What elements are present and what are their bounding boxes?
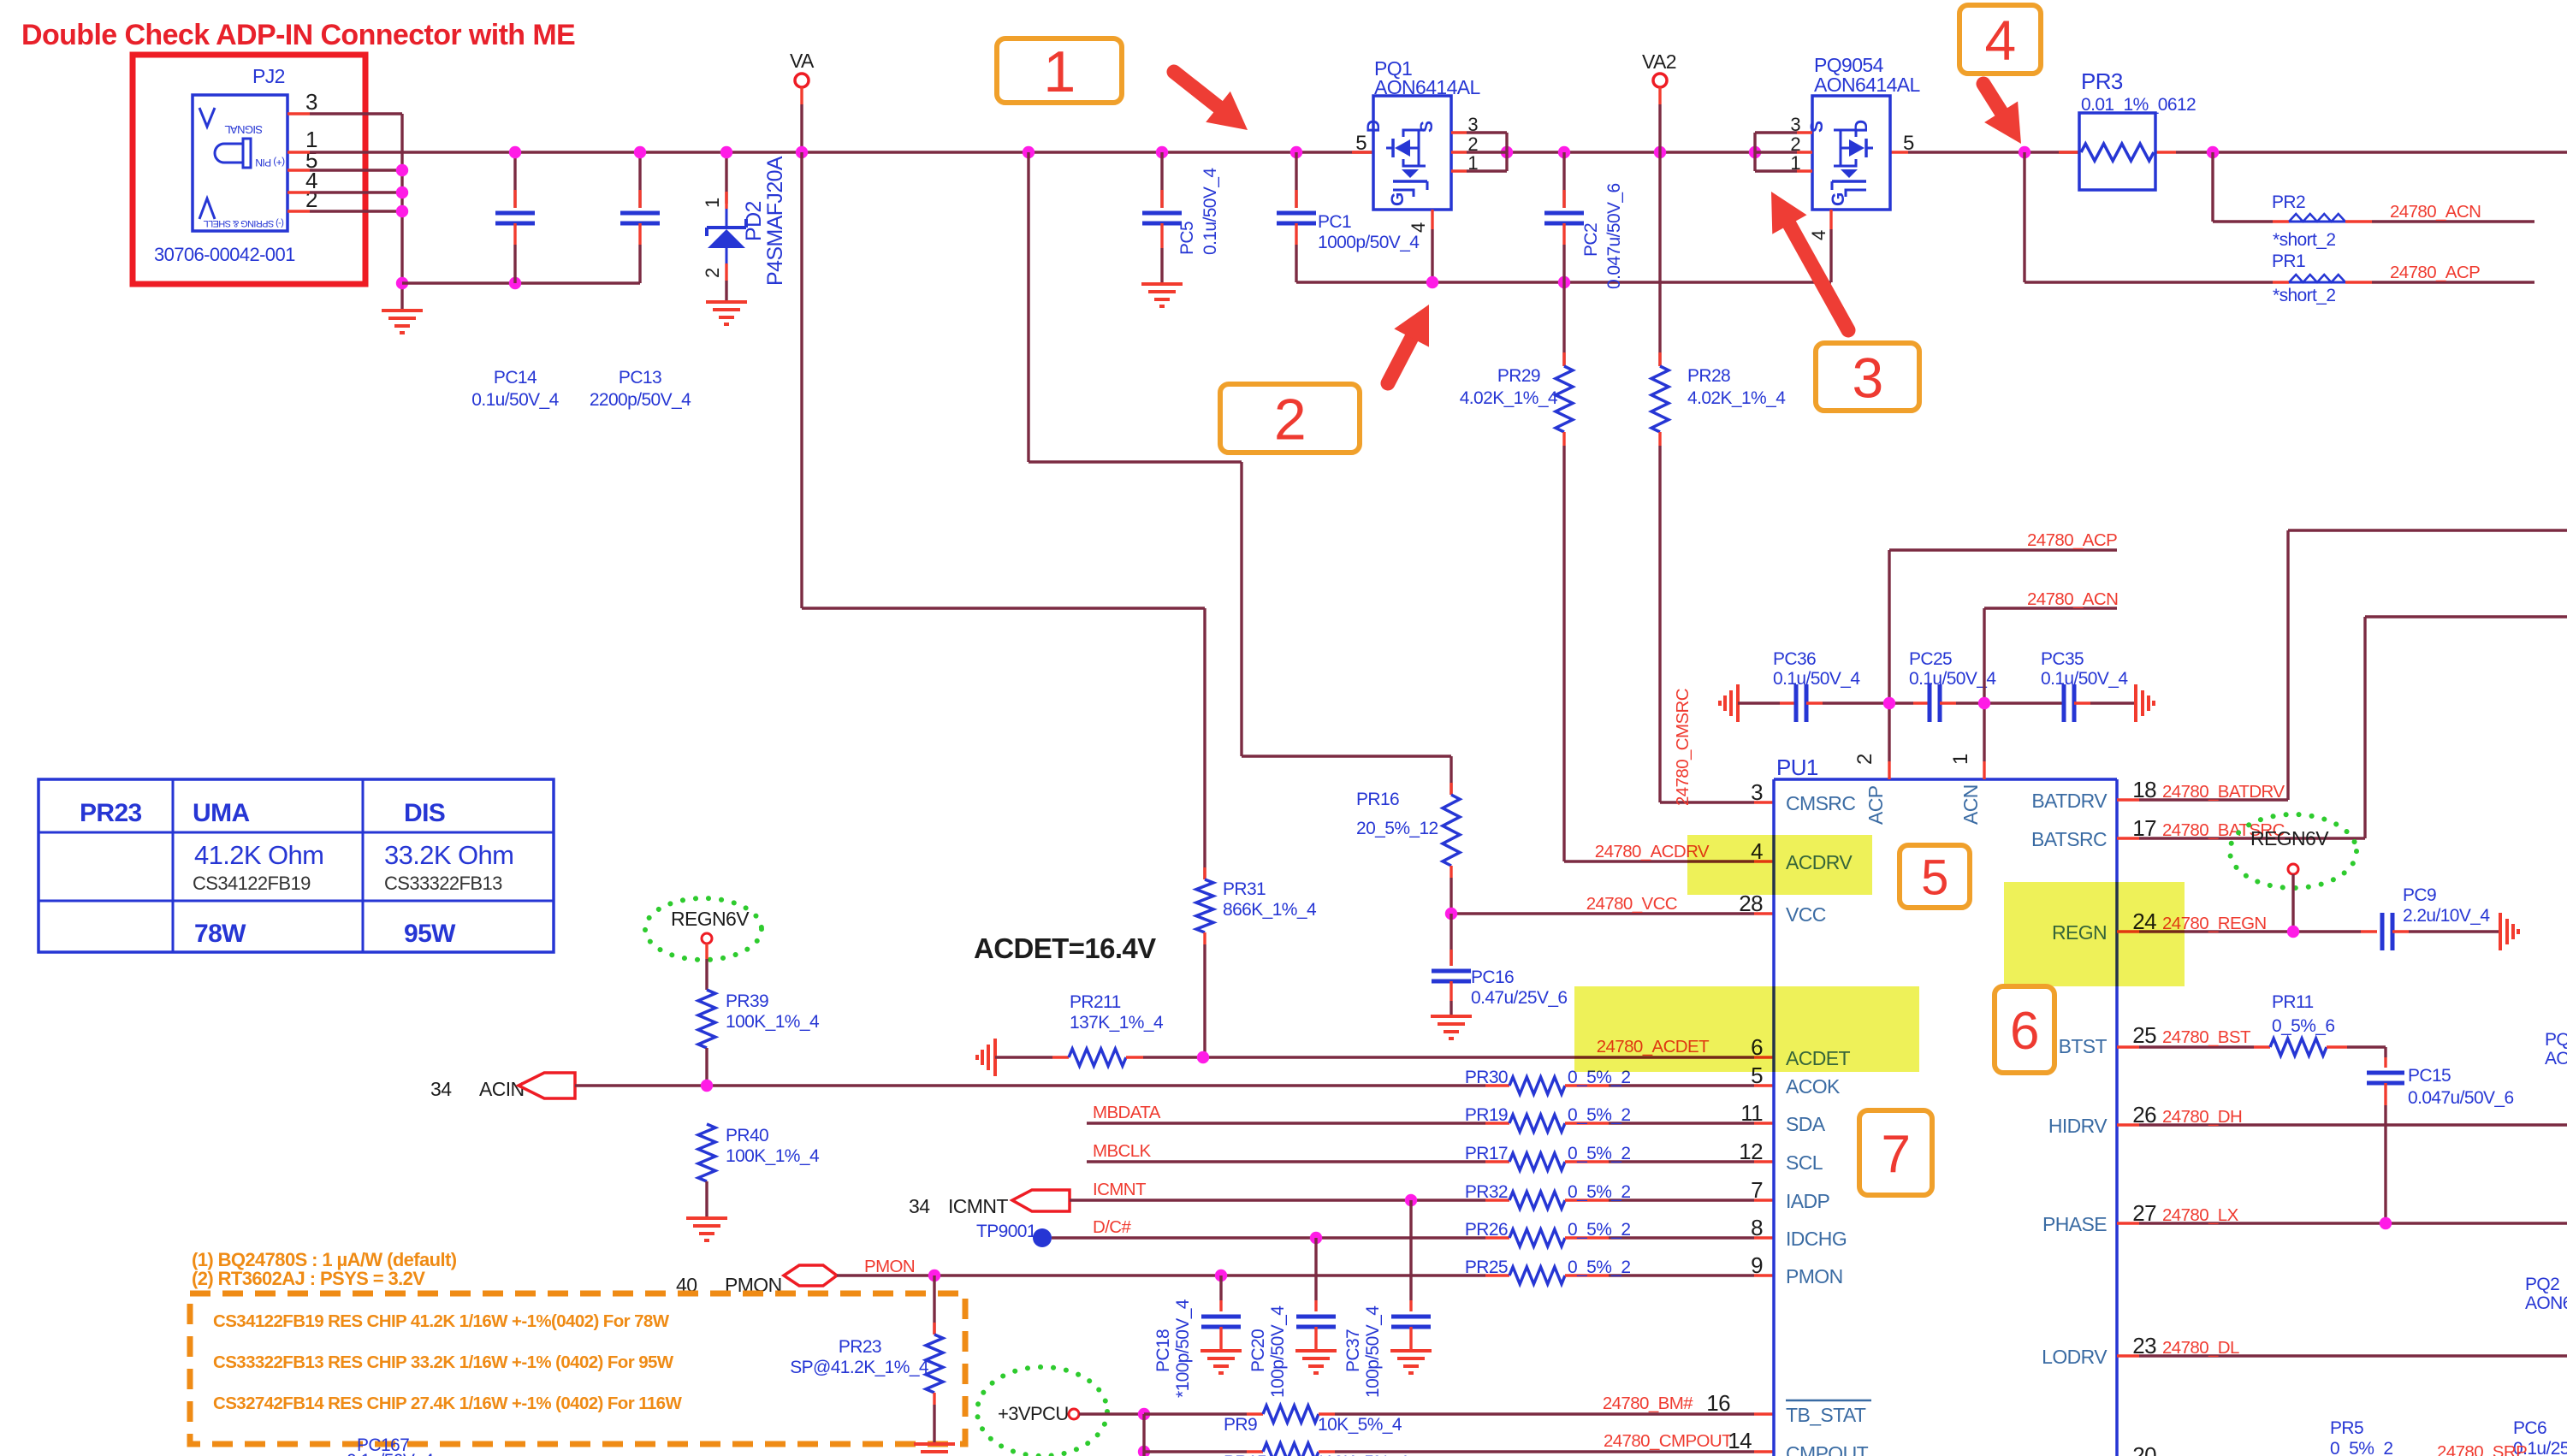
svg-text:Double Check ADP-IN Connector: Double Check ADP-IN Connector with ME — [21, 19, 575, 51]
svg-text:PMON: PMON — [864, 1257, 915, 1276]
callout 2 — [1220, 384, 1360, 453]
wire ground rail to PC14 PC13 — [402, 277, 640, 289]
testpoint TP9001 — [976, 1222, 1052, 1247]
svg-text:95W: 95W — [404, 920, 456, 948]
svg-text:2: 2 — [305, 186, 317, 212]
label ACDET=16.4V — [974, 932, 1156, 964]
svg-text:34: 34 — [430, 1078, 452, 1100]
svg-text:866K_1%_4: 866K_1%_4 — [1223, 900, 1317, 920]
svg-text:18: 18 — [2132, 777, 2156, 802]
svg-text:ACIN: ACIN — [479, 1078, 525, 1100]
svg-text:2: 2 — [1853, 754, 1876, 765]
svg-text:PR28: PR28 — [1687, 366, 1730, 386]
PQ1 pin 5 label — [1355, 132, 1366, 155]
wire VA bus to PR16 — [1029, 152, 1451, 795]
svg-text:24780_CMSRC: 24780_CMSRC — [1673, 688, 1693, 806]
net 24780_ACN — [2390, 202, 2481, 222]
svg-text:PR25: PR25 — [1465, 1258, 1508, 1277]
svg-text:100K_1%_4: 100K_1%_4 — [726, 1012, 820, 1032]
svg-text:PMON: PMON — [1786, 1265, 1843, 1287]
svg-text:30706-00042-001: 30706-00042-001 — [154, 244, 295, 265]
svg-text:PR15: PR15 — [1224, 1453, 1266, 1456]
PU1 top pins ACP ACN — [1853, 754, 1982, 825]
svg-text:1: 1 — [702, 198, 723, 208]
svg-text:P4SMAFJ20A: P4SMAFJ20A — [763, 156, 787, 286]
svg-text:27: 27 — [2132, 1200, 2156, 1226]
svg-text:PR17: PR17 — [1465, 1144, 1508, 1163]
capacitor PC15 — [2367, 1047, 2514, 1223]
svg-text:REGN6V: REGN6V — [671, 908, 750, 930]
callout 1 — [997, 38, 1122, 104]
resistor PR39 100K — [698, 990, 820, 1086]
svg-text:BATDRV: BATDRV — [2031, 790, 2108, 812]
wire BATDRV pin 18 — [2117, 530, 2567, 802]
capacitor PC16 — [1431, 914, 1568, 1039]
callout 6 — [1995, 986, 2054, 1073]
wire BTST pin 25 with PR11 — [2117, 992, 2386, 1056]
svg-text:ACOK: ACOK — [1786, 1075, 1841, 1098]
callout arrow 3 — [1771, 192, 1848, 330]
svg-text:100p/50V_4: 100p/50V_4 — [1268, 1305, 1288, 1398]
wire PJ2 pin2 — [288, 210, 402, 212]
svg-text:0_5%_2: 0_5%_2 — [1568, 1144, 1630, 1163]
net PMON — [864, 1257, 915, 1276]
wire gate drive rail — [1296, 276, 1831, 288]
svg-text:34: 34 — [909, 1195, 930, 1217]
resistor PR30 — [1465, 1068, 1774, 1094]
svg-text:2: 2 — [1274, 387, 1306, 452]
net 24780_CMPOUT — [1604, 1431, 1733, 1451]
box resistor chip options — [190, 1293, 965, 1444]
svg-text:CS33322FB13 RES CHIP 33.2K 1/: CS33322FB13 RES CHIP 33.2K 1/16W +-1% (0… — [213, 1352, 674, 1372]
svg-text:24780_ACP: 24780_ACP — [2027, 530, 2117, 550]
resistor PR16 20 ohm — [1356, 783, 1460, 914]
svg-text:PHASE: PHASE — [2042, 1213, 2107, 1235]
svg-text:24780_BATDRV: 24780_BATDRV — [2162, 782, 2285, 802]
svg-text:20_5%_12: 20_5%_12 — [1356, 819, 1438, 838]
svg-text:*short_2: *short_2 — [2273, 230, 2335, 250]
net ICMNT — [1093, 1180, 1147, 1199]
PU1 left pin names — [1706, 779, 1871, 1456]
svg-text:0.1u/50V_4: 0.1u/50V_4 — [1773, 669, 1860, 689]
wire PHASE pin 27 — [2117, 1200, 2567, 1229]
svg-text:AON6414AL: AON6414AL — [1814, 74, 1921, 96]
charger IC PU1 BQ24780S — [1774, 755, 2117, 1456]
PQ1 pin 4 gate wire — [1408, 210, 1432, 282]
svg-text:*10K_5%_4: *10K_5%_4 — [1318, 1453, 1408, 1456]
resistor PR15 10K — [1144, 1443, 1774, 1456]
svg-text:PQ2: PQ2 — [2525, 1275, 2559, 1294]
resistor PR25 — [1465, 1258, 1774, 1284]
capacitor PC20 — [1248, 1238, 1337, 1398]
svg-text:PQ3: PQ3 — [2545, 1030, 2567, 1050]
ground PR40 — [686, 1218, 727, 1240]
svg-text:0.47u/25V_6: 0.47u/25V_6 — [1471, 988, 1568, 1008]
capacitor PC9 — [2382, 885, 2500, 950]
svg-text:25: 25 — [2132, 1022, 2156, 1048]
wire MBDATA — [1087, 1122, 1485, 1124]
svg-text:BTST: BTST — [2059, 1035, 2108, 1057]
wire 24780_CMSRC to pin 3 — [1660, 688, 1774, 806]
svg-text:PR32: PR32 — [1465, 1182, 1508, 1202]
table PR23 UMA DIS options — [39, 779, 554, 952]
svg-text:7: 7 — [1751, 1177, 1763, 1203]
svg-text:D: D — [1364, 120, 1384, 133]
highlight REGN — [2004, 882, 2185, 986]
wire MBCLK — [1087, 1160, 1485, 1163]
transistor PQ3 label — [2545, 1030, 2567, 1068]
svg-text:PR19: PR19 — [1465, 1105, 1508, 1125]
ground right of PC9 — [2500, 913, 2518, 950]
svg-text:PR39: PR39 — [726, 991, 768, 1011]
svg-text:CS33322FB13: CS33322FB13 — [384, 873, 502, 894]
svg-text:24780_ACN: 24780_ACN — [2027, 589, 2118, 609]
svg-text:4: 4 — [1808, 230, 1829, 240]
svg-text:1: 1 — [1467, 152, 1478, 174]
svg-text:3: 3 — [1790, 114, 1800, 135]
svg-text:ACN: ACN — [1959, 784, 1982, 825]
svg-text:*100p/50V_4: *100p/50V_4 — [1173, 1299, 1193, 1398]
port 40 PMON — [676, 1265, 837, 1296]
svg-text:137K_1%_4: 137K_1%_4 — [1070, 1013, 1164, 1033]
svg-text:PR29: PR29 — [1497, 366, 1540, 386]
svg-text:PR26: PR26 — [1465, 1220, 1508, 1240]
svg-text:ACP: ACP — [1864, 785, 1887, 825]
net MBDATA — [1093, 1103, 1161, 1122]
svg-text:20: 20 — [2132, 1442, 2156, 1456]
svg-text:+3VPCU: +3VPCU — [998, 1403, 1069, 1424]
svg-text:(+) PIN: (+) PIN — [256, 157, 285, 169]
wire 24780_VCC to pin 28 — [1445, 894, 1774, 920]
svg-text:0_5%_2: 0_5%_2 — [1568, 1105, 1630, 1125]
wire to PR1 — [2025, 152, 2273, 282]
svg-text:2: 2 — [702, 268, 723, 278]
net 24780_BM# — [1603, 1394, 1693, 1413]
diode PD2 P4SMAFJ20A — [702, 152, 787, 324]
svg-text:PR2: PR2 — [2272, 192, 2305, 212]
svg-text:100K_1%_4: 100K_1%_4 — [726, 1146, 820, 1166]
svg-text:TB_STAT: TB_STAT — [1786, 1404, 1866, 1426]
PQ9054 pin 5 label — [1903, 132, 1914, 155]
svg-text:24780_VCC: 24780_VCC — [1586, 894, 1678, 914]
svg-text:0_5%_6: 0_5%_6 — [2272, 1016, 2334, 1036]
svg-text:(2) RT3602AJ : PSYS = 3.2V: (2) RT3602AJ : PSYS = 3.2V — [192, 1268, 425, 1289]
svg-text:PC20: PC20 — [1248, 1329, 1268, 1372]
wire PMON row — [837, 1270, 1485, 1281]
wire ACN pin 1 — [1978, 589, 2118, 779]
svg-text:PR9: PR9 — [1224, 1415, 1257, 1435]
highlight ACDRV — [1687, 835, 1872, 895]
svg-text:5: 5 — [1903, 132, 1914, 155]
svg-text:(-) SPRING & SHELL: (-) SPRING & SHELL — [204, 218, 284, 228]
svg-text:CMSRC: CMSRC — [1786, 792, 1855, 814]
net 24780_SRP — [2132, 1442, 2527, 1456]
port 34 ACIN — [430, 1073, 575, 1100]
svg-text:3: 3 — [1467, 114, 1478, 135]
svg-text:24780_SRP: 24780_SRP — [2437, 1442, 2527, 1456]
capacitor PC6 label — [2513, 1418, 2567, 1456]
svg-text:33.2K Ohm: 33.2K Ohm — [384, 840, 513, 870]
svg-text:PC37: PC37 — [1343, 1329, 1363, 1372]
svg-text:IDCHG: IDCHG — [1786, 1228, 1847, 1250]
wire HIDRV pin 26 — [2117, 1102, 2567, 1128]
svg-text:DIS: DIS — [404, 799, 445, 827]
svg-text:24780_CMPOUT: 24780_CMPOUT — [1604, 1431, 1733, 1451]
resistor PR40 100K — [698, 1124, 820, 1216]
wire main VA bus — [288, 151, 2567, 153]
transistor PQ9054 AON6414AL — [1807, 54, 1921, 210]
resistor PR28 4.02K — [1651, 152, 1786, 802]
highlight ACDET — [1574, 986, 1919, 1072]
svg-text:5: 5 — [1921, 849, 1948, 905]
ground shield — [382, 311, 423, 333]
svg-text:11: 11 — [1740, 1100, 1763, 1126]
svg-text:10K_5%_4: 10K_5%_4 — [1318, 1415, 1402, 1435]
svg-text:0_5%_2: 0_5%_2 — [1568, 1220, 1630, 1240]
resistor PR9 10K — [1144, 1406, 1319, 1423]
node VA2 power flag — [1642, 50, 1676, 152]
svg-text:PC25: PC25 — [1909, 649, 1952, 669]
svg-text:4.02K_1%_4: 4.02K_1%_4 — [1460, 388, 1558, 408]
svg-text:12: 12 — [1739, 1139, 1763, 1164]
wire +3VPCU to PR9/PR15 — [1079, 1408, 1150, 1456]
svg-text:4.02K_1%_4: 4.02K_1%_4 — [1687, 388, 1786, 408]
svg-text:0_5%_2: 0_5%_2 — [1568, 1182, 1630, 1202]
svg-text:PC14: PC14 — [494, 368, 537, 388]
svg-text:0.1u/50V_4: 0.1u/50V_4 — [2041, 669, 2128, 689]
svg-text:PC6: PC6 — [2513, 1418, 2546, 1438]
svg-text:8: 8 — [1751, 1215, 1763, 1240]
wire ICMNT — [1070, 1194, 1485, 1206]
ground ACDET divider — [977, 1039, 995, 1076]
resistor PR31 866K — [1196, 867, 1317, 1057]
note BQ24780S RT3602AJ — [192, 1249, 457, 1289]
PQ9054 pin 4 gate wire — [1808, 210, 1831, 282]
net flag REGN6V right — [2230, 814, 2357, 932]
svg-text:PC18: PC18 — [1153, 1329, 1173, 1372]
svg-text:26: 26 — [2132, 1102, 2156, 1128]
svg-text:CS34122FB19: CS34122FB19 — [193, 873, 311, 894]
svg-text:BATSRC: BATSRC — [2031, 828, 2107, 850]
wire PJ2 pin4 — [288, 191, 402, 193]
svg-text:PC9: PC9 — [2403, 885, 2436, 905]
connector PJ2 body — [154, 65, 317, 265]
svg-text:0_5%_2: 0_5%_2 — [2330, 1439, 2392, 1456]
svg-text:PC13: PC13 — [619, 368, 661, 388]
svg-text:0.047u/50V_6: 0.047u/50V_6 — [1604, 183, 1624, 289]
wire to PR2 — [2213, 152, 2273, 222]
callout arrow 2 — [1388, 305, 1429, 383]
transistor PQ1 AON6414AL — [1364, 57, 1481, 210]
svg-text:2200p/50V_4: 2200p/50V_4 — [590, 390, 691, 410]
capacitor PC35 — [2041, 649, 2136, 722]
svg-text:PR1: PR1 — [2272, 252, 2305, 271]
svg-text:14: 14 — [1728, 1428, 1752, 1453]
svg-text:PR5: PR5 — [2330, 1418, 2363, 1438]
callout 3 — [1816, 343, 1919, 411]
junction dots on VA bus — [509, 146, 2219, 158]
svg-text:0.047u/50V_6: 0.047u/50V_6 — [2408, 1088, 2514, 1108]
svg-text:PR30: PR30 — [1465, 1068, 1508, 1087]
svg-text:PJ2: PJ2 — [252, 65, 285, 87]
svg-text:SP@41.2K_1%_4: SP@41.2K_1%_4 — [790, 1358, 929, 1377]
resistor PR23 select — [790, 1275, 943, 1443]
wire shield vertical rail — [396, 114, 408, 311]
wire ACP pin 2 — [1883, 530, 2117, 779]
svg-text:ICMNT: ICMNT — [948, 1195, 1008, 1217]
svg-text:5: 5 — [1355, 132, 1366, 155]
capacitor PC25 — [1889, 649, 2064, 722]
svg-text:78W: 78W — [194, 920, 246, 948]
resistor PR3 0.01 current sense — [2079, 68, 2196, 190]
svg-text:HIDRV: HIDRV — [2048, 1115, 2108, 1137]
capacitor PC1 — [1277, 152, 1420, 282]
svg-text:D/C#: D/C# — [1093, 1217, 1132, 1237]
ground right of PC35 — [2136, 684, 2154, 722]
svg-text:SCL: SCL — [1786, 1151, 1823, 1174]
net 24780_ACP — [2390, 263, 2480, 282]
callout 4 — [1959, 5, 2041, 74]
svg-text:3: 3 — [305, 89, 317, 115]
port 34 ICMNT — [909, 1190, 1070, 1217]
svg-text:UMA: UMA — [193, 799, 250, 827]
svg-text:AON6414AL: AON6414AL — [2545, 1049, 2567, 1068]
svg-text:0.1u/50V_4: 0.1u/50V_4 — [1201, 168, 1220, 255]
svg-text:MBCLK: MBCLK — [1093, 1141, 1152, 1161]
svg-text:PR23: PR23 — [839, 1337, 881, 1357]
resistor PR32 — [1465, 1182, 1774, 1209]
capacitor PC2 — [1544, 152, 1624, 289]
svg-text:SDA: SDA — [1786, 1113, 1826, 1135]
row PR25 — [0, 0, 1, 1]
svg-text:16: 16 — [1706, 1390, 1730, 1416]
svg-text:24780_ACN: 24780_ACN — [2390, 202, 2481, 222]
svg-text:6: 6 — [2010, 1002, 2039, 1061]
capacitor PC37 — [1343, 1200, 1432, 1398]
resistor PR19 — [1465, 1105, 1774, 1132]
svg-text:VA2: VA2 — [1642, 50, 1676, 73]
svg-text:PD2: PD2 — [742, 201, 766, 241]
svg-text:PR16: PR16 — [1356, 790, 1399, 809]
svg-text:PC1: PC1 — [1318, 212, 1351, 232]
net flag REGN6V left — [645, 898, 762, 990]
resistor PR211 137K — [995, 992, 1164, 1066]
svg-text:*short_2: *short_2 — [2273, 286, 2335, 305]
node VA power flag — [790, 50, 815, 152]
svg-text:ICMNT: ICMNT — [1093, 1180, 1147, 1199]
svg-text:SIGNAL: SIGNAL — [225, 123, 263, 136]
capacitor PC167 label — [347, 1435, 434, 1456]
net D/C# — [1093, 1217, 1132, 1237]
callout arrow 4 — [1983, 84, 2021, 144]
svg-text:VA: VA — [790, 50, 815, 72]
svg-text:PC36: PC36 — [1773, 649, 1816, 669]
resistor PR5 label — [2330, 1418, 2392, 1456]
svg-text:0_5%_2: 0_5%_2 — [1568, 1258, 1630, 1277]
resistor PR1 short — [2272, 252, 2534, 305]
svg-text:3: 3 — [1852, 346, 1882, 409]
ground PR23 — [914, 1444, 955, 1456]
wire ACIN row to pin 5 ACOK — [575, 1080, 1509, 1092]
svg-text:LODRV: LODRV — [2042, 1346, 2108, 1368]
PQ1 right pins 3 2 1 bracket — [1451, 114, 1507, 174]
svg-text:0.1u/50V_4: 0.1u/50V_4 — [347, 1451, 434, 1456]
wire PJ2 pin5 — [288, 169, 402, 171]
svg-text:4: 4 — [1984, 9, 2015, 72]
svg-text:2.2u/10V_4: 2.2u/10V_4 — [2403, 906, 2490, 926]
capacitor PC18 — [1153, 1275, 1242, 1398]
wire LODRV pin 23 — [2117, 1333, 2567, 1358]
svg-text:4: 4 — [1408, 222, 1429, 233]
svg-text:REGN6V: REGN6V — [2250, 827, 2329, 849]
PQ9054 left pins 3 2 1 bracket — [1755, 114, 1812, 174]
wire VA to ACDET divider — [802, 152, 1205, 879]
connector PJ2 (ADP-IN jack) red emphasis box — [133, 55, 365, 284]
resistor PR29 4.02K — [1460, 282, 1573, 861]
svg-text:PU1: PU1 — [1776, 755, 1818, 780]
svg-text:G: G — [1388, 192, 1408, 206]
svg-text:41.2K Ohm: 41.2K Ohm — [194, 840, 323, 870]
net flag +3VPCU — [977, 1367, 1107, 1456]
svg-text:7: 7 — [1882, 1125, 1911, 1184]
resistor PR26 — [1465, 1220, 1774, 1246]
svg-text:24780_BM#: 24780_BM# — [1603, 1394, 1693, 1413]
svg-text:0.1u/50V_4: 0.1u/50V_4 — [471, 390, 559, 410]
callout 5 — [1900, 845, 1970, 908]
svg-text:PR31: PR31 — [1223, 879, 1266, 899]
svg-text:PC35: PC35 — [2041, 649, 2084, 669]
svg-text:3: 3 — [1751, 779, 1763, 805]
title: Double Check ADP-IN Connector with ME — [21, 19, 575, 51]
svg-text:PR3: PR3 — [2081, 68, 2123, 94]
svg-text:24780_DL: 24780_DL — [2162, 1338, 2239, 1358]
capacitor PC14 — [471, 152, 559, 410]
resistor PR17 — [1465, 1144, 1774, 1170]
svg-text:CS32742FB14 RES CHIP 27.4K 1/: CS32742FB14 RES CHIP 27.4K 1/16W +-1% (0… — [213, 1394, 682, 1413]
wire D/C# — [1052, 1232, 1485, 1244]
wire REGN pin 24 — [2117, 909, 2377, 938]
wire 24780_ACDRV to pin 4 — [1564, 842, 1774, 861]
svg-text:24780_DH: 24780_DH — [2162, 1107, 2242, 1127]
PU1 right pin names — [2031, 790, 2108, 1368]
svg-text:IADP: IADP — [1786, 1190, 1830, 1212]
svg-text:1: 1 — [1043, 39, 1075, 104]
svg-text:1: 1 — [1790, 152, 1800, 174]
svg-text:PR11: PR11 — [2272, 992, 2314, 1012]
svg-text:PC2: PC2 — [1581, 223, 1601, 257]
resistor PR9 body — [1224, 1414, 1774, 1435]
svg-text:TP9001: TP9001 — [976, 1222, 1036, 1241]
capacitor PC36 — [1738, 649, 1889, 722]
svg-text:CMPOUT: CMPOUT — [1786, 1442, 1869, 1456]
svg-text:PC5: PC5 — [1177, 222, 1197, 255]
wire BATSRC pin 17 — [2117, 617, 2567, 841]
capacitor PC5 — [1141, 152, 1220, 306]
net MBCLK — [1093, 1141, 1152, 1161]
callout arrow 1 — [1174, 72, 1248, 130]
ground left of PC36 — [1720, 684, 1738, 722]
svg-text:PR40: PR40 — [726, 1126, 768, 1145]
svg-text:PR23: PR23 — [80, 799, 142, 827]
svg-text:S: S — [1807, 121, 1827, 133]
svg-text:17: 17 — [2132, 815, 2156, 841]
wire 24780_ACDET to pin 6 — [1143, 1037, 1774, 1063]
svg-text:PR211: PR211 — [1070, 992, 1121, 1012]
svg-text:PC16: PC16 — [1471, 968, 1514, 987]
svg-text:VCC: VCC — [1786, 903, 1826, 926]
svg-text:24780_ACP: 24780_ACP — [2390, 263, 2480, 282]
capacitor PC13 — [590, 152, 691, 410]
